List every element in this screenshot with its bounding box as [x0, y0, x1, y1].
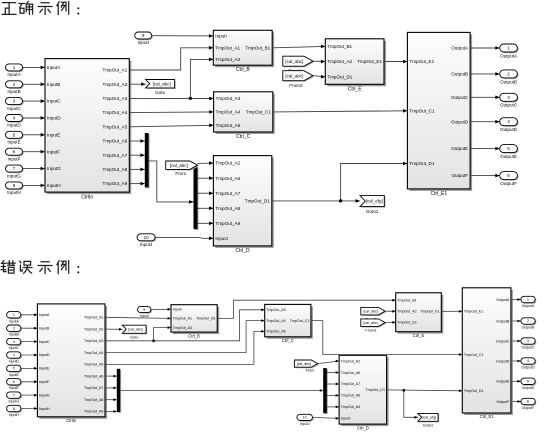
svg-text:InputA: InputA — [7, 72, 21, 77]
svg-text:OutputD: OutputD — [521, 366, 535, 370]
wire TmpOut_A6 wire to Mux1 — [129, 139, 145, 143]
svg-text:From: From — [175, 171, 186, 176]
svg-text:InputE: InputE — [9, 373, 20, 377]
wire TmpOut_B1 wire (bottom) — [217, 299, 396, 319]
wire From to Ctrl_D — [198, 161, 214, 165]
port InputH — [6, 182, 24, 195]
wire OutputE wire — [470, 147, 500, 151]
svg-text:[cal_abc]: [cal_abc] — [128, 328, 142, 332]
port InputI (bottom) — [138, 307, 153, 318]
svg-text:InputJ: InputJ — [215, 236, 228, 241]
wire TmpOut_A7 wire to Mux1 (bottom) — [105, 387, 117, 390]
svg-text:TmpOut_A3: TmpOut_A3 — [173, 326, 192, 330]
wire From3 to Ctrl_E — [313, 75, 325, 79]
wire OutputC wire (bottom) — [511, 340, 521, 343]
wire InputH wire — [23, 184, 46, 188]
svg-text:1: 1 — [13, 313, 15, 317]
wire Demux1 out 4 (bottom) — [327, 406, 339, 409]
port OutputC (bottom) — [521, 338, 536, 350]
wire InputC wire (bottom) — [21, 340, 38, 343]
svg-text:Ctrl_E: Ctrl_E — [348, 86, 363, 92]
svg-text:[cal_abc]: [cal_abc] — [363, 321, 377, 325]
svg-text:InputA: InputA — [47, 65, 61, 70]
svg-text:6: 6 — [13, 380, 15, 384]
wire InputG wire (bottom) — [21, 394, 38, 397]
svg-text:Ctrl_B: Ctrl_B — [236, 67, 251, 73]
svg-text:Ctrl_C: Ctrl_C — [236, 134, 251, 140]
wire OutputD wire — [470, 120, 500, 124]
svg-text:TmpOut_A1: TmpOut_A1 — [215, 45, 240, 50]
svg-text:OutputE: OutputE — [522, 386, 536, 390]
wire TmpOut_D1 wire to Goto1 — [272, 199, 360, 203]
svg-text:InputD: InputD — [7, 123, 21, 128]
svg-text:TmpOut_E1: TmpOut_E1 — [409, 59, 434, 64]
svg-text:6: 6 — [527, 400, 529, 404]
svg-text:InputF: InputF — [47, 149, 60, 154]
svg-text:8: 8 — [13, 407, 15, 411]
port OutputF — [500, 172, 519, 186]
port OutputA — [500, 44, 519, 58]
svg-text:OutputC: OutputC — [521, 346, 535, 350]
svg-text:OutputB: OutputB — [500, 79, 517, 84]
svg-text:[cal_abc]: [cal_abc] — [285, 59, 303, 64]
svg-text:TmpOut_A4: TmpOut_A4 — [103, 110, 128, 115]
svg-text:TmpOut_A5: TmpOut_A5 — [84, 363, 103, 367]
svg-text:OutputF: OutputF — [451, 173, 468, 178]
svg-text:[cal_efg]: [cal_efg] — [423, 416, 437, 420]
junction A3 junction (bottom) — [152, 339, 155, 342]
wire TmpOut_E1 wire (bottom) — [441, 310, 462, 313]
wire OutputA wire (bottom) — [511, 298, 521, 301]
subsystem block Ctrl_E (bottom) — [396, 293, 444, 338]
svg-text:TmpOut_A6: TmpOut_A6 — [341, 371, 360, 375]
port OutputB — [500, 70, 519, 84]
wire InputB wire (bottom) — [21, 327, 38, 330]
svg-text:Ctrl_D: Ctrl_D — [236, 248, 251, 254]
svg-text:TmpOut_A4: TmpOut_A4 — [266, 319, 285, 323]
svg-text:InputC: InputC — [9, 346, 20, 350]
svg-text:[cal_abc]: [cal_abc] — [153, 81, 171, 86]
svg-text:CtrlIn: CtrlIn — [81, 194, 93, 200]
wire Demux1 out 4 — [198, 222, 214, 226]
svg-text:TmpOut_D1: TmpOut_D1 — [464, 389, 484, 393]
svg-text:TmpOut_A3: TmpOut_A3 — [215, 57, 240, 62]
svg-text:TmpOut_A9: TmpOut_A9 — [341, 405, 360, 409]
svg-text:InputI: InputI — [137, 40, 149, 45]
svg-text:OutputE: OutputE — [496, 380, 510, 384]
wire Demux1 out 3 (bottom) — [327, 394, 339, 397]
mux/demux bar Mux1 (bottom) — [117, 369, 121, 413]
From tag From — [166, 161, 199, 171]
svg-text:InputA: InputA — [9, 319, 20, 323]
port OutputA (bottom) — [521, 296, 536, 308]
svg-text:InputE: InputE — [7, 140, 20, 145]
svg-text:TmpOut_A9: TmpOut_A9 — [215, 221, 240, 226]
svg-text:TmpOut_A1: TmpOut_A1 — [103, 68, 128, 73]
svg-text:InputB: InputB — [47, 82, 60, 87]
svg-text:TmpOut_A9: TmpOut_A9 — [84, 410, 103, 414]
wire Demux1 out 2 (bottom) — [327, 383, 339, 386]
wire InputB wire — [23, 82, 46, 86]
subsystem block Ctrl_D — [213, 156, 273, 254]
svg-text:TmpOut_A6: TmpOut_A6 — [215, 176, 240, 181]
wire InputJ wire — [155, 237, 213, 241]
wire InputI wire (bottom) — [151, 308, 171, 311]
svg-text:OutputA: OutputA — [522, 304, 536, 308]
port InputB — [6, 81, 24, 94]
svg-text:TmpOut_A8: TmpOut_A8 — [341, 394, 360, 398]
mux/demux bar Mux1 — [145, 133, 150, 188]
svg-text:3: 3 — [527, 339, 529, 343]
port OutputE — [500, 145, 519, 159]
wire TmpOut_E1 wire — [384, 60, 407, 64]
svg-text:7: 7 — [13, 393, 15, 397]
From tag From3 (bottom) — [361, 319, 386, 333]
svg-text:InputI: InputI — [140, 314, 149, 318]
svg-text:TmpOut_B1: TmpOut_B1 — [327, 44, 352, 49]
svg-text:TmpOut_D1: TmpOut_D1 — [365, 388, 385, 392]
svg-text:Ctrl_E1: Ctrl_E1 — [480, 414, 495, 419]
svg-text:InputF: InputF — [9, 386, 19, 390]
wire TmpOut_B1 wire — [272, 45, 325, 49]
svg-text:TmpOut_B1: TmpOut_B1 — [245, 45, 270, 50]
port OutputE (bottom) — [521, 378, 536, 390]
wire InputE wire — [23, 133, 46, 137]
Goto tag Goto1 — [360, 196, 385, 214]
port InputH (bottom) — [7, 405, 23, 417]
svg-text:TmpOut_A6: TmpOut_A6 — [84, 374, 103, 378]
svg-text:OutputB: OutputB — [496, 319, 510, 323]
wire InputE wire (bottom) — [21, 367, 38, 370]
svg-text:OutputF: OutputF — [500, 181, 517, 186]
wire From3 to Ctrl_E (bottom) — [385, 321, 396, 324]
svg-text:TmpOut_A2: TmpOut_A2 — [84, 327, 103, 331]
wire OutputB wire — [470, 72, 500, 76]
svg-text:TmpOut_D1: TmpOut_D1 — [245, 198, 270, 203]
subsystem block Ctrl_C (bottom) — [265, 304, 313, 343]
svg-text:InputI: InputI — [215, 34, 227, 39]
port InputA — [6, 64, 24, 77]
svg-text:TmpOut_A3: TmpOut_A3 — [84, 339, 103, 343]
wire TmpOut_A3 branch to Ctrl_B (bottom) — [154, 326, 171, 341]
svg-text:OutputD: OutputD — [451, 119, 469, 124]
svg-text:Ctrl_E: Ctrl_E — [413, 333, 425, 338]
svg-text:InputB: InputB — [39, 326, 50, 330]
From tag From2 — [283, 56, 314, 67]
svg-text:InputI: InputI — [173, 308, 182, 312]
svg-text:2: 2 — [13, 326, 15, 330]
Goto tag Goto1 (bottom) — [418, 413, 439, 427]
wire TmpOut_D1 branch to Goto1 (bottom) — [404, 390, 418, 418]
subsystem block CtrlIn — [45, 59, 131, 201]
svg-text:InputB: InputB — [9, 333, 20, 337]
svg-text:2: 2 — [527, 319, 529, 323]
svg-text:TmpOut_A8: TmpOut_A8 — [103, 167, 128, 172]
svg-text:5: 5 — [13, 367, 15, 371]
wire InputD wire — [23, 116, 46, 120]
port InputJ (bottom) — [297, 414, 314, 426]
subsystem block Ctrl_E — [325, 39, 386, 93]
svg-text:OutputE: OutputE — [500, 154, 517, 159]
svg-text:InputG: InputG — [9, 400, 20, 404]
svg-text:TmpOut_C1: TmpOut_C1 — [290, 319, 310, 323]
svg-text:TmpOut_A5: TmpOut_A5 — [216, 123, 241, 128]
svg-text:OutputC: OutputC — [496, 339, 510, 343]
title text 错误示例: — [1, 261, 79, 274]
wire TmpOut_A5 wire (bottom) — [105, 330, 265, 364]
svg-text:OutputA: OutputA — [451, 46, 469, 51]
wire Mux1 out to Demux (bottom) — [120, 389, 323, 392]
port OutputB (bottom) — [521, 318, 536, 330]
wire TmpOut_A2 wire to Goto (bottom) — [105, 328, 122, 331]
svg-text:10: 10 — [144, 235, 149, 240]
port OutputD (bottom) — [521, 358, 536, 370]
subsystem block Ctrl_E1 (bottom) — [462, 288, 513, 419]
wire TmpOut_A1 wire — [129, 46, 213, 70]
wire Demux1 out 1 — [198, 176, 214, 180]
wire OutputB wire (bottom) — [511, 320, 521, 323]
svg-text:Ctrl_E1: Ctrl_E1 — [430, 191, 447, 197]
wire TmpOut_C1 wire (bottom) — [311, 321, 462, 356]
svg-text:From3: From3 — [365, 329, 376, 333]
wire TmpOut_A7 wire to Mux1 — [129, 153, 145, 157]
svg-text:TmpOut_A2: TmpOut_A2 — [327, 59, 352, 64]
junction D1 junction — [339, 199, 342, 202]
wire TmpOut_A2 wire to Goto — [129, 82, 145, 86]
svg-text:InputG: InputG — [39, 393, 50, 397]
wire OutputC wire — [470, 96, 500, 100]
svg-text:Ctrl_D: Ctrl_D — [357, 425, 369, 430]
subsystem block Ctrl_C — [214, 92, 275, 140]
svg-text:Goto1: Goto1 — [423, 424, 433, 428]
svg-text:OutputE: OutputE — [451, 146, 468, 151]
svg-text:From3: From3 — [289, 83, 303, 88]
svg-text:TmpOut_A4: TmpOut_A4 — [84, 351, 103, 355]
port InputA (bottom) — [7, 312, 23, 324]
wire TmpOut_A3 wire — [129, 97, 213, 101]
svg-text:[cal_abc]: [cal_abc] — [170, 163, 188, 168]
svg-text:[cal_abc]: [cal_abc] — [285, 73, 303, 78]
subsystem block Ctrl_E1 — [407, 32, 472, 197]
Goto tag Goto — [146, 80, 176, 96]
svg-text:TmpOut_A7: TmpOut_A7 — [84, 386, 103, 390]
port InputB (bottom) — [7, 325, 23, 337]
svg-text:Goto: Goto — [130, 336, 138, 340]
wire TmpOut_A9 wire to Mux1 (bottom) — [105, 410, 117, 413]
wire InputF wire (bottom) — [21, 380, 38, 383]
wire OutputF wire — [470, 174, 500, 178]
svg-text:OutputA: OutputA — [500, 53, 518, 58]
wire TmpOut_D1 branch to Ctrl_E1 — [341, 162, 408, 201]
port OutputF (bottom) — [521, 398, 536, 410]
wire From2 to Ctrl_E — [313, 60, 325, 64]
wire InputA wire (bottom) — [21, 313, 38, 316]
svg-text:TmpOut_A9: TmpOut_A9 — [103, 181, 128, 186]
svg-text:TmpOut_A7: TmpOut_A7 — [341, 382, 360, 386]
wire TmpOut_A4 wire — [129, 110, 213, 114]
wire TmpOut_A6 wire to Mux1 (bottom) — [105, 375, 117, 378]
subsystem block Ctrl_D (bottom) — [339, 355, 389, 430]
svg-text:InputG: InputG — [47, 166, 61, 171]
port InputF (bottom) — [7, 379, 23, 391]
title text 正确示例: — [2, 2, 79, 15]
svg-text:InputD: InputD — [47, 116, 61, 121]
wire InputC wire — [23, 99, 46, 103]
svg-text:[cal_efg]: [cal_efg] — [366, 199, 383, 204]
svg-text:InputJ: InputJ — [140, 242, 153, 247]
svg-text:TmpOut_B1: TmpOut_B1 — [397, 299, 416, 303]
svg-text:OutputC: OutputC — [451, 95, 469, 100]
port OutputC — [500, 93, 519, 107]
svg-text:InputC: InputC — [7, 106, 21, 111]
svg-text:TmpOut_A3: TmpOut_A3 — [266, 308, 285, 312]
port InputC (bottom) — [7, 338, 23, 350]
svg-text:TmpOut_E1: TmpOut_E1 — [420, 310, 439, 314]
svg-text:TmpOut_A2: TmpOut_A2 — [215, 161, 240, 166]
wire TmpOut_D1 wire (bottom) — [387, 389, 463, 392]
svg-text:InputE: InputE — [47, 133, 60, 138]
svg-text:3: 3 — [13, 340, 15, 344]
svg-text:OutputD: OutputD — [496, 359, 510, 363]
wire TmpOut_A3 branch to Ctrl_B — [190, 58, 213, 99]
svg-text:CtrlIn: CtrlIn — [66, 418, 77, 423]
svg-text:10: 10 — [303, 416, 307, 420]
svg-text:TmpOut_A3: TmpOut_A3 — [103, 96, 128, 101]
wire InputF wire — [23, 150, 46, 154]
wire From to Ctrl_D (bottom) — [318, 360, 339, 364]
wire OutputA wire — [470, 46, 500, 50]
wire OutputF wire (bottom) — [511, 400, 521, 403]
wire TmpOut_A5 wire — [129, 124, 213, 128]
wire TmpOut_A4 wire (bottom) — [105, 319, 265, 352]
svg-text:InputC: InputC — [39, 340, 50, 344]
From tag From3 — [283, 71, 314, 88]
subsystem block Ctrl_B (bottom) — [171, 305, 219, 339]
svg-text:InputF: InputF — [7, 156, 20, 161]
port InputF — [6, 148, 24, 161]
svg-text:1: 1 — [527, 298, 529, 302]
svg-text:TmpOut_C1: TmpOut_C1 — [464, 353, 484, 357]
svg-text:InputJ: InputJ — [300, 422, 310, 426]
mux/demux bar Demux1 (bottom) — [323, 368, 328, 414]
svg-text:TmpOut_E1: TmpOut_E1 — [464, 310, 483, 314]
svg-text:InputJ: InputJ — [341, 417, 351, 421]
svg-text:TmpOut_A2: TmpOut_A2 — [397, 310, 416, 314]
svg-text:InputG: InputG — [7, 173, 21, 178]
svg-text:TmpOut_D1: TmpOut_D1 — [409, 161, 434, 166]
svg-text:InputD: InputD — [39, 353, 50, 357]
svg-text:InputH: InputH — [7, 190, 21, 195]
wire InputG wire — [23, 167, 46, 171]
svg-text:OutputD: OutputD — [500, 127, 518, 132]
svg-text:[cal_abc]: [cal_abc] — [297, 362, 311, 366]
wire TmpOut_A3 wire (bottom) — [105, 308, 265, 340]
wire TmpOut_A8 wire to Mux1 (bottom) — [105, 398, 117, 401]
wire TmpOut_A9 wire to Mux1 — [129, 182, 145, 186]
svg-text:TmpOut_D1: TmpOut_D1 — [327, 74, 352, 79]
wire OutputE wire (bottom) — [511, 380, 521, 383]
wire TmpOut_A8 wire to Mux1 — [129, 168, 145, 172]
svg-text:TmpOut_A2: TmpOut_A2 — [341, 359, 360, 363]
svg-text:InputH: InputH — [9, 413, 20, 417]
wire TmpOut_C1 wire — [273, 109, 408, 113]
svg-text:TmpOut_A3: TmpOut_A3 — [216, 96, 241, 101]
subsystem block CtrlIn (bottom) — [37, 304, 107, 423]
svg-text:TmpOut_A2: TmpOut_A2 — [103, 82, 128, 87]
From tag From (bottom) — [294, 360, 319, 368]
wire From2 to Ctrl_E (bottom) — [385, 310, 396, 313]
mux/demux bar Demux1 — [194, 167, 199, 230]
port InputC — [6, 98, 24, 111]
svg-text:9: 9 — [143, 308, 145, 312]
port InputJ — [137, 234, 156, 247]
svg-text:InputF: InputF — [39, 380, 50, 384]
svg-text:TmpOut_A5: TmpOut_A5 — [103, 124, 128, 129]
port InputD — [6, 115, 24, 128]
svg-text:TmpOut_A6: TmpOut_A6 — [103, 139, 128, 144]
wire OutputD wire (bottom) — [511, 360, 521, 363]
svg-text:TmpOut_A8: TmpOut_A8 — [215, 206, 240, 211]
svg-text:TmpOut_C1: TmpOut_C1 — [409, 108, 434, 113]
wire Mux1 out to Demux — [149, 161, 194, 204]
port InputD (bottom) — [7, 352, 23, 364]
svg-text:TmpOut_D1: TmpOut_D1 — [397, 321, 417, 325]
wire Demux1 out 3 — [198, 206, 214, 210]
svg-text:Goto1: Goto1 — [366, 209, 379, 214]
svg-text:OutputF: OutputF — [496, 400, 510, 404]
svg-text:InputH: InputH — [39, 407, 50, 411]
svg-text:4: 4 — [527, 359, 529, 363]
svg-text:InputD: InputD — [9, 360, 20, 364]
svg-text:InputE: InputE — [39, 367, 50, 371]
svg-text:4: 4 — [13, 353, 15, 357]
svg-text:TmpOut_E1: TmpOut_E1 — [357, 59, 382, 64]
wire Demux1 out 2 — [198, 191, 214, 195]
subsystem block Ctrl_B — [213, 30, 274, 73]
svg-text:OutputF: OutputF — [522, 406, 535, 410]
svg-text:[cal_abc]: [cal_abc] — [363, 309, 377, 313]
port InputG — [6, 165, 24, 178]
Goto tag Goto (bottom) — [122, 325, 147, 339]
svg-text:5: 5 — [527, 380, 529, 384]
wire InputA wire — [23, 66, 46, 70]
port OutputD — [500, 118, 519, 132]
svg-text:TmpOut_A4: TmpOut_A4 — [216, 110, 241, 115]
svg-text:TmpOut_B1: TmpOut_B1 — [196, 317, 215, 321]
svg-text:OutputB: OutputB — [522, 326, 536, 330]
svg-text:TmpOut_A5: TmpOut_A5 — [266, 330, 285, 334]
svg-text:InputH: InputH — [47, 183, 61, 188]
wire InputI wire — [152, 34, 214, 38]
wire InputH wire (bottom) — [21, 407, 38, 410]
From tag From2 (bottom) — [361, 307, 386, 316]
svg-text:TmpOut_A1: TmpOut_A1 — [173, 317, 192, 321]
svg-text:OutputA: OutputA — [496, 298, 510, 302]
svg-text:From: From — [306, 369, 315, 373]
svg-text:OutputB: OutputB — [451, 72, 468, 77]
port InputI — [135, 32, 153, 45]
svg-text:InputB: InputB — [7, 89, 20, 94]
junction A3 junction — [189, 97, 192, 100]
wire InputD wire (bottom) — [21, 354, 38, 357]
svg-text:OutputC: OutputC — [500, 103, 518, 108]
svg-text:TmpOut_A7: TmpOut_A7 — [215, 191, 240, 196]
svg-text:Ctrl_B: Ctrl_B — [188, 333, 200, 338]
svg-text:TmpOut_C1: TmpOut_C1 — [246, 110, 271, 115]
wire TmpOut_A1 wire (bottom) — [105, 317, 171, 320]
svg-text:TmpOut_A8: TmpOut_A8 — [84, 398, 103, 402]
svg-text:InputC: InputC — [47, 99, 61, 104]
